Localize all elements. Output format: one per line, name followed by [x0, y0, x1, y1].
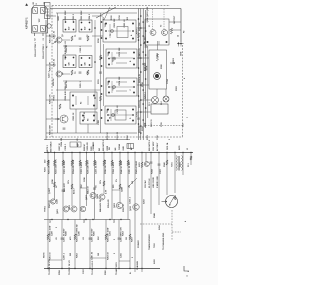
dashed enclosure bottom edge	[46, 136, 183, 138]
svg-text:BIAS ADJ 2K: BIAS ADJ 2K	[99, 199, 102, 212]
dashed wires into RB1	[152, 9, 154, 29]
resistor R230	[156, 54, 158, 61]
svg-text:R261 10: R261 10	[50, 252, 52, 260]
junction on bottom bus	[141, 268, 142, 269]
junction on top bus	[150, 152, 151, 153]
wire column x=167	[166, 153, 168, 196]
bottom wire 2	[44, 139, 130, 141]
svg-text:TO GND LUG 3: TO GND LUG 3	[92, 260, 94, 275]
svg-text:R234 47K 1/2W: R234 47K 1/2W	[72, 160, 75, 174]
wire	[46, 64, 56, 66]
resistor	[71, 160, 73, 166]
wire row below SB2	[56, 89, 100, 91]
junction on bottom bus	[118, 268, 119, 269]
svg-text:C223 .05 200V: C223 .05 200V	[96, 160, 98, 174]
resistor	[137, 33, 139, 38]
svg-text:R240 1K 1/2W: R240 1K 1/2W	[120, 161, 123, 174]
junction on top bus	[141, 152, 142, 153]
capacitor	[89, 237, 92, 239]
svg-text:AC ONLY: AC ONLY	[156, 142, 159, 151]
LB4 pads	[82, 115, 95, 122]
svg-text:R230 470: R230 470	[86, 142, 89, 150]
transistor Q216	[144, 162, 149, 167]
wire pads column	[101, 21, 103, 23]
interior hairlines CB3	[110, 86, 133, 88]
CB1 pads	[105, 23, 134, 40]
dashed enclosure top edge	[52, 4, 170, 6]
svg-text:3 WIRE GND: 3 WIRE GND	[157, 176, 159, 188]
svg-text:R228 47: R228 47	[83, 144, 86, 151]
stage block CB2	[106, 49, 137, 68]
svg-text:R203 4.7K: R203 4.7K	[49, 94, 52, 104]
small ref box	[70, 142, 81, 147]
svg-text:GAIN: GAIN	[121, 186, 124, 192]
resistor	[47, 234, 49, 240]
svg-text:1/2W: 1/2W	[52, 179, 54, 184]
svg-text:R254 470: R254 470	[107, 198, 110, 208]
svg-text:SEE NOTE 2: SEE NOTE 2	[149, 140, 151, 151]
stage box SB2a	[63, 55, 76, 68]
dashed wire end tick	[182, 124, 184, 128]
wire	[92, 35, 103, 37]
svg-text:R205 220K: R205 220K	[65, 10, 67, 21]
svg-text:7: 7	[187, 117, 189, 118]
svg-text:R227 10: R227 10	[59, 143, 61, 150]
svg-text:Q SET: Q SET	[49, 187, 51, 194]
resistor	[119, 160, 121, 166]
lower schematic mid bus	[44, 219, 130, 221]
svg-text:R242 47 OHM: R242 47 OHM	[135, 161, 138, 174]
svg-text:R208 8.2K C206 .02: R208 8.2K C206 .02	[65, 81, 67, 100]
resistor	[105, 234, 107, 240]
dark blob cluster	[127, 144, 134, 149]
junction on top bus	[190, 152, 191, 153]
can mark CB4	[112, 114, 115, 117]
junction on mid bus	[51, 219, 52, 220]
resistor R207	[71, 70, 73, 75]
meter M201	[166, 196, 178, 208]
junction on bottom bus	[129, 268, 130, 269]
bus wire v1	[138, 9, 140, 141]
capacitor	[63, 127, 66, 129]
wire	[62, 73, 70, 75]
resistor	[99, 96, 101, 101]
junction on bottom bus	[47, 268, 48, 269]
resistor	[79, 160, 81, 166]
wire	[62, 39, 70, 41]
svg-text:60 CYCLE: 60 CYCLE	[149, 178, 151, 188]
dashed wire horiz	[145, 124, 183, 126]
left outer wire	[45, 20, 47, 140]
junction	[140, 15, 142, 17]
svg-text:10%: 10%	[100, 180, 102, 184]
wire	[103, 44, 105, 106]
svg-text:C222A: C222A	[118, 143, 121, 150]
tall box RB2	[149, 50, 167, 89]
junction	[140, 27, 142, 29]
svg-text:R231 220 1/2W: R231 220 1/2W	[49, 160, 51, 174]
wire column x=119 lower band	[118, 220, 120, 269]
wire	[169, 29, 181, 31]
svg-text:BAL 4.7K: BAL 4.7K	[63, 183, 66, 192]
svg-text:C207 .05: C207 .05	[84, 111, 86, 120]
svg-text:LINE CORD: LINE CORD	[153, 176, 155, 188]
junction on top bus	[86, 152, 87, 153]
svg-text:C224 .1 400V: C224 .1 400V	[112, 161, 115, 174]
stub wire	[90, 257, 106, 259]
wire	[141, 99, 152, 101]
resistor	[85, 160, 87, 166]
svg-text:R204 100K: R204 100K	[49, 124, 52, 135]
bus wire v2	[140, 9, 142, 141]
LB3 pads	[72, 95, 95, 107]
wire column x=48 lower band	[47, 220, 49, 269]
wire column x=128	[127, 153, 129, 220]
resistor	[53, 182, 55, 187]
transistor Q213	[99, 194, 105, 200]
wire column x=151	[150, 153, 152, 215]
resistor	[62, 160, 64, 166]
resistor R206	[87, 36, 89, 41]
junction	[142, 103, 144, 105]
upper schematic: small input box at far left	[45, 3, 51, 19]
stub wire	[112, 189, 120, 191]
junction on top bus	[158, 152, 159, 153]
capacitor C203	[79, 37, 82, 39]
transistor package U1 outline (chamfered top corners)	[32, 6, 48, 34]
arrow to Q203	[55, 118, 59, 120]
left column vertical wire	[57, 13, 59, 133]
svg-text:1/2W: 1/2W	[84, 177, 86, 182]
wire	[46, 15, 56, 17]
transistor Q209	[63, 206, 69, 212]
wire column x=142	[141, 153, 143, 220]
svg-text:J1: J1	[187, 148, 189, 150]
junction	[142, 35, 144, 37]
svg-text:1M: 1M	[126, 237, 128, 240]
svg-text:10%: 10%	[68, 180, 70, 184]
junction	[140, 99, 142, 101]
junction on top bus	[79, 152, 80, 153]
wire	[100, 13, 102, 133]
stage box SB1a	[63, 20, 76, 33]
svg-text:R215 1K: R215 1K	[107, 132, 109, 140]
upper schematic top bus wire	[50, 8, 181, 10]
svg-text:TO PIN 7 OF V2: TO PIN 7 OF V2	[69, 259, 71, 275]
corner mark bottom right	[184, 266, 189, 271]
transistor Q215	[133, 204, 139, 210]
wire column x=135	[134, 153, 136, 205]
junction	[138, 123, 140, 125]
capacitor	[118, 237, 121, 239]
wire	[169, 21, 181, 23]
svg-text:TO PIN 4 OF V1: TO PIN 4 OF V1	[48, 259, 51, 275]
svg-text:4JF4517-1: 4JF4517-1	[25, 17, 28, 29]
svg-text:C203 5: C203 5	[73, 13, 75, 20]
junction on top bus	[71, 152, 72, 153]
wire below LB4	[87, 124, 89, 133]
resistor	[53, 160, 55, 166]
bus wire v3	[142, 9, 144, 141]
svg-text:R202 47K: R202 47K	[49, 61, 52, 71]
wire column x=94.5	[94, 153, 96, 220]
svg-text:R236 82K 10%: R236 82K 10%	[88, 160, 90, 174]
junction	[145, 54, 147, 56]
junction on top bus	[134, 152, 135, 153]
bus wire v4	[145, 10, 147, 128]
capacitor	[150, 161, 153, 163]
capacitor C205	[79, 71, 82, 73]
svg-text:V1: V1	[149, 25, 151, 27]
wire column x=146	[145, 153, 147, 162]
svg-text:TO AMP J201: TO AMP J201	[115, 261, 118, 275]
transistor Q211	[80, 206, 86, 212]
terminal cluster at end of right border	[177, 43, 184, 45]
svg-text:NOTE 1: NOTE 1	[47, 145, 49, 152]
wire column x=62 lower band	[61, 220, 63, 269]
resistor	[71, 184, 73, 189]
transistor Q210	[71, 206, 77, 212]
svg-text:COLLECTOR 2: COLLECTOR 2	[43, 44, 45, 59]
transformer T201	[176, 156, 183, 171]
stage block CB1	[103, 20, 136, 42]
junction on top bus	[182, 152, 183, 153]
svg-text:C225 .02 1KV: C225 .02 1KV	[129, 161, 131, 174]
svg-text:R263 1K: R263 1K	[108, 252, 110, 260]
wire column x=54.5	[54, 153, 56, 200]
wire column x=191	[190, 153, 192, 166]
U1 pad top-right	[41, 8, 46, 14]
upper schematic second top wire	[56, 12, 137, 14]
can mark CB3	[113, 86, 116, 89]
svg-text:CHASSIS: CHASSIS	[136, 260, 139, 270]
wire column x=159	[158, 153, 160, 206]
bus wire v5	[147, 46, 149, 118]
stage block CB4	[105, 106, 136, 124]
transistor Q212	[90, 193, 96, 199]
junction	[140, 71, 142, 73]
transistor Q205	[162, 30, 168, 36]
box RB3	[151, 104, 168, 114]
svg-text:SEE TABLE: SEE TABLE	[50, 141, 53, 152]
svg-text:OUTPUT: OUTPUT	[174, 15, 176, 24]
resistor R229	[170, 28, 172, 34]
resistor	[103, 160, 105, 166]
resistor	[127, 160, 129, 166]
junction on top bus	[166, 152, 167, 153]
diagonal wire	[128, 178, 137, 187]
svg-text:K3: K3	[81, 102, 83, 104]
junction	[138, 67, 140, 69]
svg-text:2W: 2W	[70, 253, 72, 256]
wire column x=75 lower band	[74, 220, 76, 269]
stub wire	[119, 260, 130, 262]
svg-text:C239 .1: C239 .1	[64, 252, 66, 260]
junction on top bus	[54, 152, 55, 153]
svg-text:P1: P1	[47, 46, 49, 48]
transistor Q202	[56, 71, 62, 77]
junction on bottom bus	[105, 268, 106, 269]
junction	[142, 51, 144, 53]
resistor	[190, 156, 192, 160]
can mark CB1	[111, 30, 114, 33]
svg-text:5%: 5%	[116, 179, 118, 182]
svg-text:C220: C220	[91, 146, 93, 151]
svg-text:POWER: POWER	[138, 240, 140, 248]
interior hairlines CB1	[108, 30, 131, 32]
svg-text:R221 15: R221 15	[151, 119, 153, 127]
resistor R205	[71, 36, 73, 41]
svg-text:W5: W5	[109, 147, 111, 150]
wire column x=120	[119, 153, 121, 203]
stub wire	[80, 187, 87, 189]
junction on top bus	[62, 152, 63, 153]
junction	[140, 57, 142, 59]
svg-text:M201: M201	[175, 194, 177, 200]
svg-text:F201 1A: F201 1A	[166, 142, 169, 150]
CB4 pads	[107, 109, 134, 122]
svg-text:10K: 10K	[81, 184, 83, 188]
resistor	[47, 160, 49, 166]
resistor	[103, 181, 105, 186]
capacitor	[61, 237, 64, 239]
svg-text:TO CHASSIS GND: TO CHASSIS GND	[162, 232, 165, 250]
wire column x=80	[79, 153, 81, 220]
svg-text:R256 1K: R256 1K	[123, 204, 125, 212]
interior hairlines CB4	[109, 114, 132, 116]
resistor	[74, 234, 76, 240]
junction	[140, 111, 142, 113]
transistor Q203	[60, 115, 68, 123]
svg-text:GRN: GRN	[181, 51, 183, 56]
CB2 pads	[108, 52, 135, 66]
wire	[137, 57, 149, 59]
junction	[138, 39, 140, 41]
U1 pad top-left	[33, 8, 38, 14]
wire column x=175	[174, 153, 176, 194]
junction on top bus	[119, 152, 120, 153]
lamp PL202	[163, 96, 169, 102]
wire column x=106 lower band	[105, 220, 107, 269]
junction	[142, 89, 144, 91]
capacitor	[158, 163, 161, 165]
svg-text:Q204 Q205 Q206: Q204 Q205 Q206	[146, 6, 149, 23]
junction on top bus	[94, 152, 95, 153]
stage box LB3	[70, 92, 97, 109]
junction	[138, 18, 140, 20]
CB3 pads	[108, 81, 135, 94]
junction on mid bus	[92, 219, 93, 220]
svg-text:4.7K: 4.7K	[105, 189, 108, 194]
junction on bottom bus	[74, 268, 75, 269]
U1 pad bottom-left	[33, 26, 38, 32]
resistor	[99, 55, 101, 60]
stage box LB4	[80, 112, 97, 124]
svg-text:TP201: TP201	[54, 94, 56, 101]
stage block CB3	[106, 78, 137, 96]
wire x95	[94, 20, 96, 120]
svg-text:R247 22: R247 22	[48, 200, 51, 208]
svg-text:R229: R229	[107, 146, 109, 151]
svg-text:C205 .1: C205 .1	[80, 81, 82, 88]
svg-text:C222 .1: C222 .1	[49, 71, 51, 78]
svg-text:V2: V2	[161, 25, 163, 27]
junction	[140, 44, 142, 46]
svg-text:C202 .01: C202 .01	[54, 58, 56, 67]
svg-text:NOTE: NOTE	[44, 252, 46, 258]
transistor Q214	[116, 202, 122, 208]
resistor	[141, 162, 143, 168]
lower schematic top bus	[44, 152, 193, 154]
dashed enclosure left edge	[51, 5, 53, 137]
wire column x=104	[103, 153, 105, 195]
svg-text:T1: T1	[110, 34, 112, 36]
junction on top bus	[47, 152, 48, 153]
page background	[0, 0, 218, 285]
svg-text:C221 .05 200V: C221 .05 200V	[64, 160, 66, 174]
svg-text:P2: P2	[184, 31, 186, 33]
wire column x=130 lower band	[129, 220, 131, 269]
junction	[138, 95, 140, 97]
svg-text:ADJ 2: ADJ 2	[73, 187, 76, 194]
dashed stub	[172, 231, 181, 233]
junction on mid bus	[85, 219, 86, 220]
junction	[145, 30, 147, 32]
arrow to meter	[162, 200, 168, 202]
stub wire	[48, 259, 62, 261]
svg-text:R206 220K: R206 220K	[81, 10, 83, 21]
capacitor	[137, 117, 140, 119]
svg-text:K4: K4	[87, 119, 90, 121]
svg-text:TP202: TP202	[173, 57, 175, 64]
dashed enclosure right edge	[182, 45, 184, 137]
long wire x=142	[141, 220, 143, 273]
svg-text:J2: J2	[178, 35, 180, 37]
svg-text:W3: W3	[99, 148, 101, 151]
svg-text:B-: B-	[130, 272, 132, 274]
diagonal leader line	[96, 7, 116, 18]
arrow mark	[170, 62, 175, 64]
svg-text:C219 .1: C219 .1	[65, 144, 67, 151]
svg-text:R209 1K: R209 1K	[73, 112, 75, 120]
svg-text:C209 .02: C209 .02	[124, 18, 126, 27]
junction	[140, 132, 142, 134]
wire	[165, 89, 167, 96]
svg-text:1W: 1W	[98, 253, 100, 256]
wire below LB3	[75, 109, 77, 133]
capacitor	[145, 45, 148, 47]
wire column x=112	[111, 153, 113, 220]
svg-text:C204 5: C204 5	[88, 13, 91, 20]
right border wire (upper part)	[180, 9, 182, 43]
wire	[92, 15, 103, 17]
resistor	[111, 160, 113, 166]
dashed wire down from switch	[171, 210, 173, 240]
svg-text:C2: C2	[43, 38, 45, 40]
resistor	[119, 184, 121, 189]
wire	[46, 35, 56, 37]
junction on top bus	[111, 152, 112, 153]
svg-text:R214 10K: R214 10K	[118, 76, 121, 86]
svg-text:GND: GND	[123, 146, 125, 151]
svg-text:1W: 1W	[132, 181, 134, 184]
junction on mid bus	[67, 219, 68, 220]
wire column x=90 lower band	[89, 220, 91, 269]
wire	[137, 84, 149, 86]
wire	[46, 118, 60, 120]
U1 bottom pin stubs	[34, 33, 36, 36]
svg-text:TP201: TP201	[45, 205, 47, 212]
